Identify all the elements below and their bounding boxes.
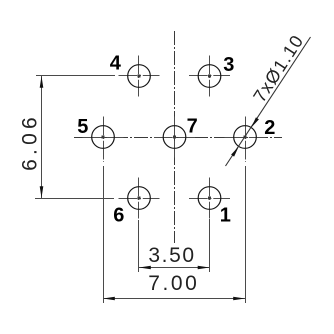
extension line below hole 5: [103, 166, 105, 303]
centerline horizontal through middle row: [74, 137, 282, 139]
crosshair hole 2: [225, 137, 266, 139]
extension line below hole 2: [245, 166, 247, 303]
crosshair hole 4: [83, 56, 266, 219]
hole 6 circle: [128, 187, 151, 210]
svg-text:3: 3: [223, 54, 234, 76]
dimension 6.06 vertical line: [35, 76, 115, 199]
leader arrow upper (points to hole 2 upper-right edge): [251, 117, 259, 127]
svg-text:6.06: 6.06: [19, 113, 42, 171]
extension line top (hole 4 row): [36, 75, 115, 77]
svg-text:6: 6: [113, 204, 124, 226]
crosshair hole 6: [119, 198, 160, 200]
arrow right 3.50: [198, 266, 210, 270]
hole 2 circle: [234, 126, 257, 149]
arrow down 6.06: [40, 186, 44, 198]
leader line 7x dia 1.10: [226, 37, 311, 166]
centerline vertical through hole 7 column: [174, 31, 176, 243]
arrow up 6.06: [40, 76, 44, 88]
extension line bottom (hole 6 row): [35, 198, 114, 200]
svg-text:5: 5: [77, 116, 88, 138]
crosshair hole 1: [189, 198, 230, 200]
svg-text:7: 7: [187, 115, 198, 137]
crosshair hole 7: [154, 137, 195, 139]
svg-text:3.50: 3.50: [148, 244, 195, 267]
leader arrow lower (points to hole 2 lower-left edge): [231, 146, 239, 156]
arrow right 7.00: [233, 297, 245, 301]
hole 7 circle: [163, 126, 186, 149]
arrow left 7.00: [103, 297, 115, 301]
hole center dots: [208, 197, 211, 200]
extension line below hole 6: [138, 220, 140, 272]
hole 5 circle: [92, 126, 115, 149]
hole 3 circle: [198, 65, 221, 88]
svg-text:7.00: 7.00: [148, 272, 199, 295]
arrow left 3.50: [139, 266, 151, 270]
extension line below hole 1: [209, 219, 211, 272]
crosshair hole 5: [83, 137, 124, 139]
svg-text:1: 1: [220, 204, 231, 226]
svg-text:4: 4: [110, 53, 122, 75]
dimension 3.50 line: [139, 219, 210, 272]
hole 1 circle: [198, 187, 221, 210]
hole 4 circle: [128, 65, 151, 88]
crosshair hole 3: [189, 75, 230, 77]
svg-text:2: 2: [264, 117, 275, 139]
dimension 7.00 line: [103, 166, 246, 303]
